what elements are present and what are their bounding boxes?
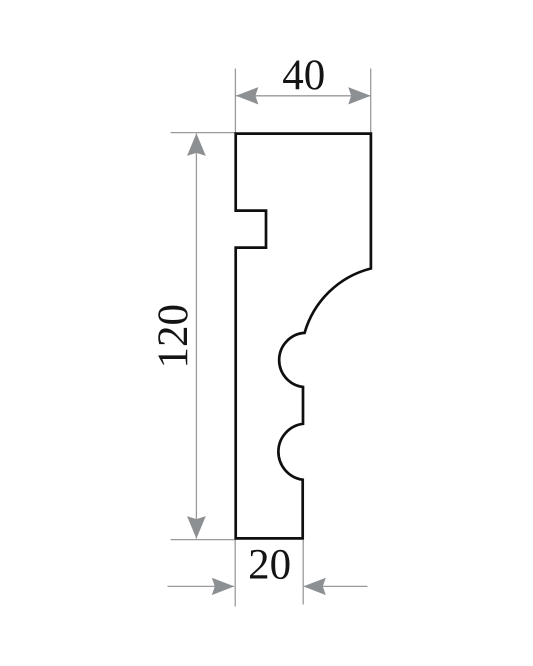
leader line left of dim 20 bbox=[168, 585, 234, 587]
svg-text:120: 120 bbox=[150, 304, 197, 369]
extension line left of dim 40 bbox=[234, 69, 236, 134]
arrowhead top of dim 120 bbox=[187, 133, 206, 156]
arrowhead bottom of dim 120 bbox=[187, 516, 206, 539]
leader line right of dim 20 bbox=[304, 585, 368, 587]
arrowhead right of dim 40 bbox=[348, 87, 371, 104]
arrowhead left of dim 40 bbox=[236, 87, 259, 104]
extension line top of dim 120 bbox=[171, 132, 236, 134]
svg-text:20: 20 bbox=[248, 542, 291, 589]
arrowhead right of dim 20 (points left) bbox=[303, 578, 326, 595]
extension line bottom of dim 120 bbox=[171, 539, 236, 541]
dimension line 40 bbox=[236, 95, 371, 97]
dimension line 120 bbox=[195, 134, 197, 539]
extension line right of dim 20 bbox=[302, 540, 304, 605]
extension line right of dim 40 bbox=[370, 69, 372, 134]
extension line left of dim 20 bbox=[234, 540, 236, 607]
arrowhead left of dim 20 (points right) bbox=[212, 578, 235, 595]
svg-text:40: 40 bbox=[282, 52, 325, 99]
molding profile outline bbox=[236, 134, 371, 539]
